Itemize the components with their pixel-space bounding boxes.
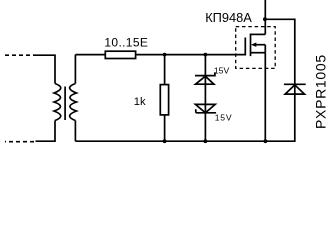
- svg-text:1k: 1k: [134, 96, 146, 108]
- svg-text:10..15E: 10..15E: [104, 36, 148, 50]
- svg-text:15V: 15V: [215, 112, 233, 122]
- svg-text:15V: 15V: [214, 65, 230, 75]
- svg-text:КП948А: КП948А: [205, 10, 252, 25]
- svg-text:PXPR1005: PXPR1005: [313, 54, 329, 129]
